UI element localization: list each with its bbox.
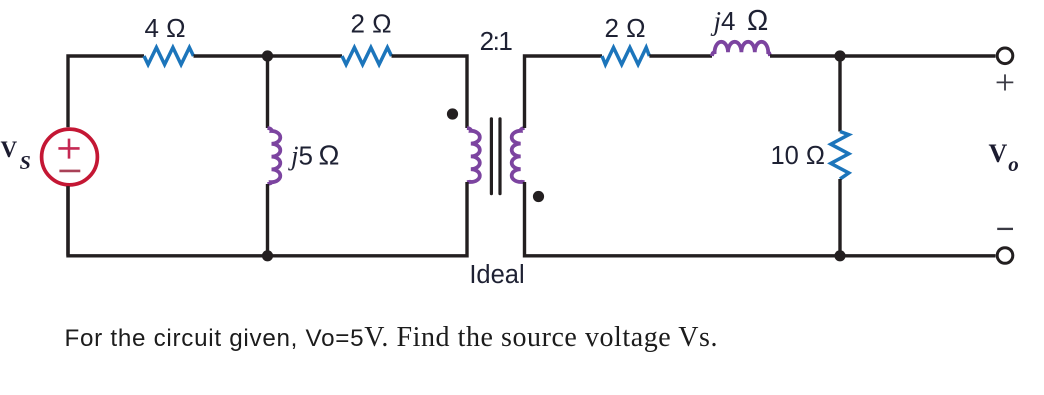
resistor 2ohm right [602,48,649,65]
wire: transformer primary bottom to bottom-left rail [68,182,467,256]
svg-text:Vo: Vo [989,139,1019,176]
transformer primary polarity dot [447,108,458,119]
svg-text:j4Ω: j4Ω [711,5,769,37]
resistor 2ohm left [342,48,392,65]
transformer primary winding [467,128,480,182]
svg-text:2 Ω: 2 Ω [604,13,645,43]
wire: inductor j5 to bottom rail [266,184,269,256]
wire: R2 to transformer primary top [392,56,468,128]
svg-text:Ideal: Ideal [469,261,524,289]
resistor 4ohm [144,48,194,65]
transformer secondary polarity dot [533,191,544,202]
svg-text:j5Ω: j5Ω [288,140,339,171]
resistor 10ohm [831,132,849,180]
svg-text:10 Ω: 10 Ω [770,142,825,170]
wire: transformer secondary top to R2 right [525,56,603,128]
wire: top node A to R2 left [268,54,343,57]
node A bottom junction [262,250,273,261]
svg-text:VS: VS [1,137,31,174]
wire: node A down to inductor j5 [266,56,269,128]
wire: node B down to R10 [838,56,841,132]
inductor j5 [268,128,281,184]
label minus [997,228,1013,230]
inductor j4 [712,42,770,56]
terminal bottom [997,248,1013,264]
node B bottom junction [834,250,845,261]
transformer core bars [491,119,500,194]
wire: inductor j4 to node B [770,54,840,57]
label plus [997,74,1014,90]
transformer secondary winding [512,128,525,182]
node A top junction [262,50,273,61]
wire: R10 to bottom rail [838,179,841,256]
wire: R2 right to inductor j4 [649,54,712,57]
svg-text:2:1: 2:1 [480,26,513,56]
wire: left rail top and top-left segment [68,56,144,127]
node B top junction [834,50,845,61]
voltage source Vs [42,129,98,185]
wire: secondary bottom rail [525,182,996,256]
caption text [65,322,719,354]
svg-text:2 Ω: 2 Ω [350,9,391,39]
terminal top [997,48,1013,64]
wire: top between R4 and node A [194,54,268,57]
svg-text:4 Ω: 4 Ω [144,13,185,43]
wire: node B to terminal top [840,54,996,57]
wire: left rail bottom [66,186,69,256]
